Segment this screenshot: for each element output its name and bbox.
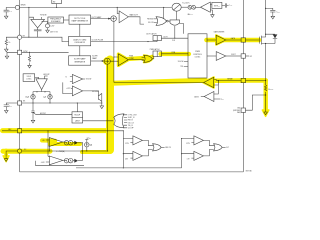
- pin RT: [18, 35, 22, 39]
- INTVCC bypass capacitor: [222, 3, 229, 7]
- latch HICCUP: [72, 112, 83, 123]
- svg-text:CVIN: CVIN: [9, 11, 12, 13]
- error amp A1: [49, 138, 63, 147]
- svg-text:INTVCC: INTVCC: [87, 138, 92, 140]
- VC external compensation: [6, 151, 17, 157]
- sout driver buffer: [207, 55, 216, 57]
- wire FBX comparator riser: [123, 131, 133, 168]
- pin VIN (SHDN/UVLO): [15, 5, 19, 9]
- svg-text:SS LOW: SS LOW: [148, 22, 154, 24]
- wire A2 output to VC node: [81, 143, 83, 161]
- current mirror A1: [64, 141, 73, 145]
- svg-text:1.7V: 1.7V: [187, 158, 190, 160]
- box OSCILLATOR: [69, 36, 91, 45]
- highlight sense path: [112, 80, 205, 83]
- svg-text:OSCILLATOR: OSCILLATOR: [74, 41, 85, 44]
- wire SENSE line: [216, 80, 241, 82]
- wire duty ramp to summer: [91, 18, 111, 20]
- transistor Q1 SS discharge: [83, 91, 102, 105]
- IC outer border right edge: [242, 0, 244, 172]
- wire VC line: [22, 150, 108, 152]
- summing node duty: [111, 16, 117, 22]
- highlight sense resistor down: [264, 81, 268, 110]
- wire clock pulse: [91, 40, 157, 43]
- svg-text:SS DUMP: SS DUMP: [92, 91, 99, 93]
- svg-text:FOLDBACK: FOLDBACK: [51, 20, 61, 23]
- svg-text:FBX OV: FBX OV: [128, 120, 133, 122]
- wire hiccup amp to current sources: [33, 90, 50, 95]
- svg-text:+1.27V: +1.27V: [66, 88, 71, 90]
- comparator current limit (points left): [204, 92, 214, 102]
- wire GND return: [246, 95, 266, 110]
- input capacitor CIN: [4, 7, 9, 14]
- box SLOPE RAMP GENERATOR: [69, 56, 91, 65]
- wire duty latch to logic: [161, 37, 188, 39]
- svg-text:–0.8V: –0.8V: [41, 162, 45, 164]
- internal pulldown resistor: [29, 52, 31, 55]
- IC outer border left edge: [19, 0, 21, 172]
- box INTVCC: [212, 2, 222, 8]
- highlight VC line: [3, 149, 50, 154]
- wire PWM latch out: [161, 53, 188, 55]
- AND gate G2 (points down): [170, 20, 180, 25]
- svg-text:LOGIC: LOGIC: [26, 79, 32, 81]
- op-amp hiccup (points down): [36, 79, 47, 90]
- wire A2 lower network: [36, 161, 84, 166]
- highlight VC comp arrow: [4, 151, 8, 157]
- svg-text:3757 BD: 3757 BD: [246, 171, 253, 173]
- svg-text:COUT: COUT: [276, 11, 280, 13]
- wire UVLO comparator input: [63, 82, 73, 93]
- TSD sensor circle: [172, 3, 181, 11]
- highlight gate path: [207, 38, 260, 43]
- svg-text:HICCUP: HICCUP: [43, 74, 49, 76]
- pin FBX: [18, 129, 22, 133]
- svg-text:7V NOM: 7V NOM: [40, 15, 47, 17]
- wire SYNC to ground (external): [7, 52, 18, 54]
- svg-text:FBX OV: FBX OV: [165, 147, 171, 149]
- stubs into logic box: [184, 62, 188, 67]
- wire OR6 to hiccup latch: [83, 120, 114, 122]
- pin GATE: [241, 38, 245, 42]
- amp current sense (points left): [204, 77, 214, 87]
- svg-text:HICCUP: HICCUP: [40, 113, 46, 115]
- svg-text:INTVCC: INTVCC: [214, 5, 220, 7]
- ground for reference: [46, 29, 50, 33]
- RT external resistor: [6, 37, 17, 39]
- wires current sources to SS line: [33, 99, 50, 103]
- pin GND: [241, 108, 245, 112]
- gate driver buffer: [207, 39, 216, 41]
- wire summer vertical (duty/sense signal): [113, 21, 115, 82]
- svg-text:SS LOW: SS LOW: [86, 79, 92, 81]
- highlight PWM comparator: [118, 54, 128, 66]
- pin SS: [18, 101, 22, 105]
- top small box (cropped): [52, 0, 62, 4]
- highlight gate driver: [216, 35, 226, 44]
- svg-text:HICCUP: HICCUP: [74, 114, 80, 116]
- svg-text:100kHz TO 1MHz: 100kHz TO 1MHz: [73, 39, 87, 41]
- comparator SS fault 2: [194, 151, 204, 160]
- pin SYNC: [18, 50, 22, 54]
- pin VC: [18, 149, 22, 153]
- wire FBX down to error amps: [48, 131, 51, 157]
- svg-text:CFLT: CFLT: [221, 99, 224, 101]
- svg-text:2V: 2V: [36, 92, 38, 94]
- svg-text:1.22V: 1.22V: [186, 143, 190, 145]
- svg-text:LOGIC: LOGIC: [195, 57, 201, 59]
- svg-text:TJ = 165°C: TJ = 165°C: [182, 2, 190, 4]
- wire slope ramp to summer: [91, 60, 104, 62]
- wire RT to oscillator: [22, 37, 69, 41]
- svg-text:SHDN: SHDN: [21, 5, 27, 7]
- box UVLO LOGIC: [23, 74, 35, 82]
- svg-text:TSD: TSD: [180, 66, 183, 68]
- wire pwm comparator out: [128, 59, 144, 61]
- comparator duty cycle: [119, 11, 128, 23]
- svg-text:CVCC: CVCC: [229, 5, 233, 7]
- svg-text:CLK: CLK: [172, 40, 175, 42]
- wire rail to mirror: [181, 6, 188, 8]
- svg-text:SS: SS: [23, 101, 25, 103]
- ground for LDO divider: [211, 13, 215, 17]
- box FREQUENCY FOLDBACK: [48, 17, 64, 23]
- wire foldback to duty box: [64, 19, 70, 21]
- box PWM CONTROL LOGIC: [188, 34, 207, 78]
- svg-text:SS LOW: SS LOW: [178, 61, 184, 63]
- diode arrow A1: [74, 141, 78, 145]
- svg-text:RAMP GENERATOR: RAMP GENERATOR: [72, 20, 89, 23]
- highlight sense amp: [204, 77, 214, 87]
- OR gate 6-input fault (points left): [114, 114, 124, 128]
- current source ISS1: [31, 95, 35, 99]
- svg-text:UVLO_LV: UVLO_LV: [128, 122, 134, 124]
- fault input stubs: [123, 115, 127, 128]
- wire GATE pin to MOSFET: [246, 39, 260, 41]
- svg-text:DUTY: DUTY: [164, 36, 168, 38]
- comparator UVLO monitor: [72, 86, 82, 96]
- highlight PWM wire: [161, 52, 190, 56]
- wire M1 source to sense resistor: [265, 44, 267, 80]
- IC outer border bottom edge: [20, 171, 244, 173]
- diode D1 (across M1): [265, 34, 266, 35]
- amp INTVCC LDO (points left): [200, 2, 210, 12]
- wire mirror to amp: [196, 6, 201, 8]
- svg-text:UVLO: UVLO: [27, 76, 32, 78]
- wire UVLO divider tap: [28, 7, 30, 37]
- error amp A2: [49, 156, 63, 165]
- svg-text:RSENSE: RSENSE: [268, 89, 273, 91]
- svg-text:GENERATOR: GENERATOR: [74, 61, 86, 64]
- current source ISS2: [48, 95, 52, 99]
- svg-text:CLK OFF: CLK OFF: [128, 128, 134, 130]
- ground for COUT: [271, 15, 275, 19]
- comparator FBX OV: [133, 136, 143, 145]
- SS external capacitor: [4, 103, 18, 109]
- comparator SS fault 1: [194, 136, 204, 145]
- svg-text:FLT: FLT: [226, 147, 229, 149]
- box DUTY-CYCLE RAMP GENERATOR: [69, 15, 91, 24]
- highlight comparator out to latch: [128, 58, 146, 59]
- svg-text:(EXPOSED: (EXPOSED: [233, 110, 240, 112]
- svg-text:108mV: 108mV: [194, 96, 199, 98]
- summing node PWM: [104, 58, 110, 64]
- reference 1.25V: [46, 24, 50, 28]
- svg-text:SS FLT_LV: SS FLT_LV: [128, 117, 135, 119]
- svg-text:DUTY-CYCLE: DUTY-CYCLE: [74, 18, 86, 20]
- wire AND output: [174, 26, 176, 38]
- svg-text:FB MODE: FB MODE: [147, 19, 153, 21]
- svg-text:SLOPE RAMP: SLOPE RAMP: [74, 58, 86, 61]
- drain capacitor CDC: [265, 8, 266, 9]
- svg-text:2V: 2V: [44, 92, 46, 94]
- svg-text:CONTROL: CONTROL: [193, 54, 202, 56]
- highlight summer: [103, 57, 111, 65]
- OR gate into PWM latch: [144, 55, 153, 62]
- highlight VC arrow head: [3, 156, 9, 162]
- highlight sense ground arrow: [262, 110, 269, 116]
- highlight VC vertical: [106, 60, 114, 151]
- wire sense amp output to summer vertical: [114, 82, 204, 84]
- wires ilim comparator inputs: [214, 81, 221, 100]
- wire max duty: [128, 17, 144, 24]
- comparator FBX UV: [133, 151, 143, 160]
- svg-text:CSS: CSS: [9, 106, 12, 108]
- highlight OR gate at latch: [144, 55, 153, 62]
- svg-text:1.25V: 1.25V: [50, 26, 54, 28]
- supply stub to duty comparator: [117, 7, 118, 8]
- NOR gate G1: [156, 17, 166, 26]
- wire FBX line: [2, 130, 123, 132]
- svg-text:OT FLT_LTCH: OT FLT_LTCH: [128, 115, 137, 117]
- current mirror A2: [64, 159, 73, 163]
- highlight error amp A1: [42, 138, 55, 143]
- wire NOR to AND: [168, 20, 170, 21]
- transistor Q2 hiccup pulldown: [31, 103, 72, 119]
- wire comparators bottom rail: [76, 167, 182, 169]
- output capacitor COUT: [270, 10, 275, 15]
- current source 15uA: [85, 139, 88, 142]
- latch PWM: [153, 51, 161, 57]
- wire sense amp inputs: [214, 80, 219, 85]
- svg-text:4.8V TO 1V: 4.8V TO 1V: [50, 31, 58, 33]
- wire shdn amp input stubs: [29, 17, 42, 19]
- ground for sense resistor: [264, 111, 268, 115]
- highlight FBX line: [3, 128, 112, 133]
- svg-text:CLOCK PULSE: CLOCK PULSE: [92, 40, 104, 42]
- svg-text:GND: GND: [237, 108, 240, 110]
- VIN rail wire: [6, 6, 171, 8]
- wire rail drop to gates: [163, 7, 165, 19]
- svg-text:1.25V: 1.25V: [125, 143, 129, 145]
- current mirror symbol: [188, 5, 192, 9]
- switch node column: [265, 0, 267, 36]
- wire oscillator to slope box: [79, 46, 81, 56]
- wire TSD to AND: [176, 11, 178, 20]
- diode arrow A2: [74, 159, 78, 163]
- OR gate SS fault: [214, 144, 223, 151]
- wire SS line: [22, 102, 102, 104]
- wires into hiccup amp: [35, 76, 48, 79]
- pass transistor M3: [34, 28, 42, 37]
- op-amp A7 internal regulator (points down): [31, 19, 45, 28]
- wire SYNC internal: [22, 51, 69, 53]
- OR gate FBX fault: [153, 144, 162, 151]
- wire VC vertical to summer: [107, 64, 109, 151]
- comparator TSD monitor: [72, 75, 82, 84]
- svg-text:0.8V: 0.8V: [125, 158, 128, 160]
- resistor RSENSE: [265, 81, 267, 86]
- wire duty box to oscillator: [79, 24, 81, 36]
- transistor M1 external MOSFET: [259, 36, 265, 45]
- svg-text:TSD_LV: TSD_LV: [128, 125, 133, 127]
- latch duty: [153, 36, 161, 41]
- svg-text:PWM: PWM: [195, 51, 200, 53]
- wire summer to comparator: [110, 57, 118, 61]
- pin SENSE: [241, 78, 245, 82]
- wire second comparator riser: [181, 139, 183, 168]
- svg-text:SLOPE: SLOPE: [92, 56, 97, 58]
- comparator PWM A4: [118, 54, 128, 66]
- svg-text:INT: INT: [53, 2, 56, 4]
- wire driver to GATE pin: [226, 39, 241, 41]
- pin SOUT: [241, 54, 245, 58]
- ground for CIN: [4, 15, 8, 19]
- wire hiccup latch up to SS line: [76, 103, 78, 112]
- svg-text:SOUT: SOUT: [231, 54, 235, 56]
